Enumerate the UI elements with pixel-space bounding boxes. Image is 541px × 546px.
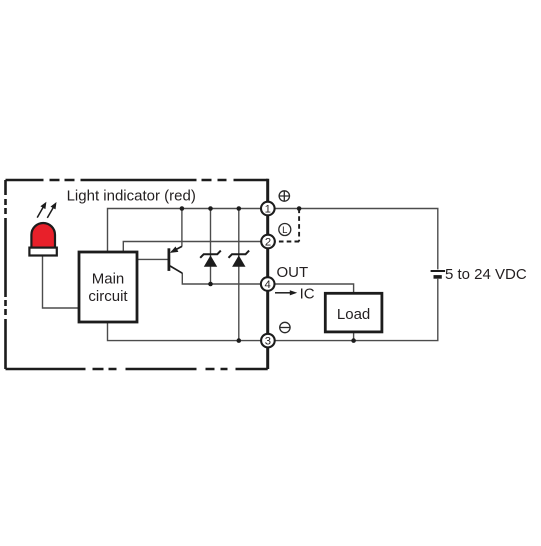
junction node on bottom rail at load [351, 338, 356, 343]
wire collector to terminal 4 (OUT row) [182, 273, 267, 284]
minus polarity symbol [280, 322, 290, 332]
battery B1 [431, 271, 446, 277]
LED indicator (red) [29, 223, 56, 255]
terminal strip (right edge of enclosure) [266, 179, 269, 369]
main circuit block [79, 252, 137, 322]
arrow to IC [275, 290, 297, 295]
svg-text:OUT: OUT [277, 264, 309, 281]
wire main circuit to terminal 2 [123, 242, 267, 253]
load-position symbol L [279, 224, 291, 237]
wire emitter to top rail [181, 209, 183, 247]
svg-text:3: 3 [265, 336, 271, 348]
junction node on bottom rail at zener D2 [237, 338, 242, 343]
svg-text:4: 4 [265, 279, 271, 291]
wire terminal 1 to battery plus [268, 209, 438, 270]
wire load to bottom rail [353, 332, 355, 341]
svg-text:Load: Load [337, 306, 370, 323]
svg-text:IC: IC [300, 285, 315, 302]
zener diode D2 [229, 251, 250, 267]
wire transistor base [137, 258, 168, 260]
wire terminal 4 to load [268, 284, 354, 293]
plus polarity symbol [279, 191, 289, 201]
load block [325, 293, 382, 332]
svg-text:Light indicator (red): Light indicator (red) [67, 187, 196, 204]
wire zener D1 branch [210, 209, 212, 285]
svg-text:1: 1 [265, 204, 271, 216]
light emission arrow 2 [47, 202, 56, 218]
wire bottom rail main circuit to terminal 3 [108, 322, 268, 341]
junction node on OUT row at zener D1 [208, 282, 213, 287]
transistor Q1 (PNP output) [169, 246, 182, 273]
dashed load-optional connection (L) [275, 209, 299, 242]
wire battery minus down to bottom rail [268, 279, 438, 341]
svg-text:2: 2 [265, 237, 271, 249]
wire zener D2 branch [238, 209, 240, 341]
junction node on top rail at zener D2 [237, 206, 242, 211]
svg-text:L: L [282, 225, 287, 236]
junction node on terminal 1 wire at dashed branch [297, 206, 302, 211]
sensor outline (dash-dot enclosure) [6, 180, 268, 369]
svg-text:circuit: circuit [88, 288, 128, 305]
terminal 4 [261, 277, 275, 291]
junction node on top rail at zener D1 [208, 206, 213, 211]
terminal 3 [261, 334, 275, 348]
zener diode D1 [200, 251, 221, 267]
terminal 1 [261, 202, 275, 216]
junction node on top rail at emitter [180, 206, 185, 211]
svg-text:5 to 24 VDC: 5 to 24 VDC [445, 266, 527, 283]
terminal 2 [261, 235, 275, 249]
svg-text:Main: Main [92, 271, 125, 288]
wire LED to main circuit [43, 256, 80, 309]
wire top rail from main circuit to terminal 1 [108, 209, 268, 253]
light emission arrow 1 [37, 202, 46, 218]
